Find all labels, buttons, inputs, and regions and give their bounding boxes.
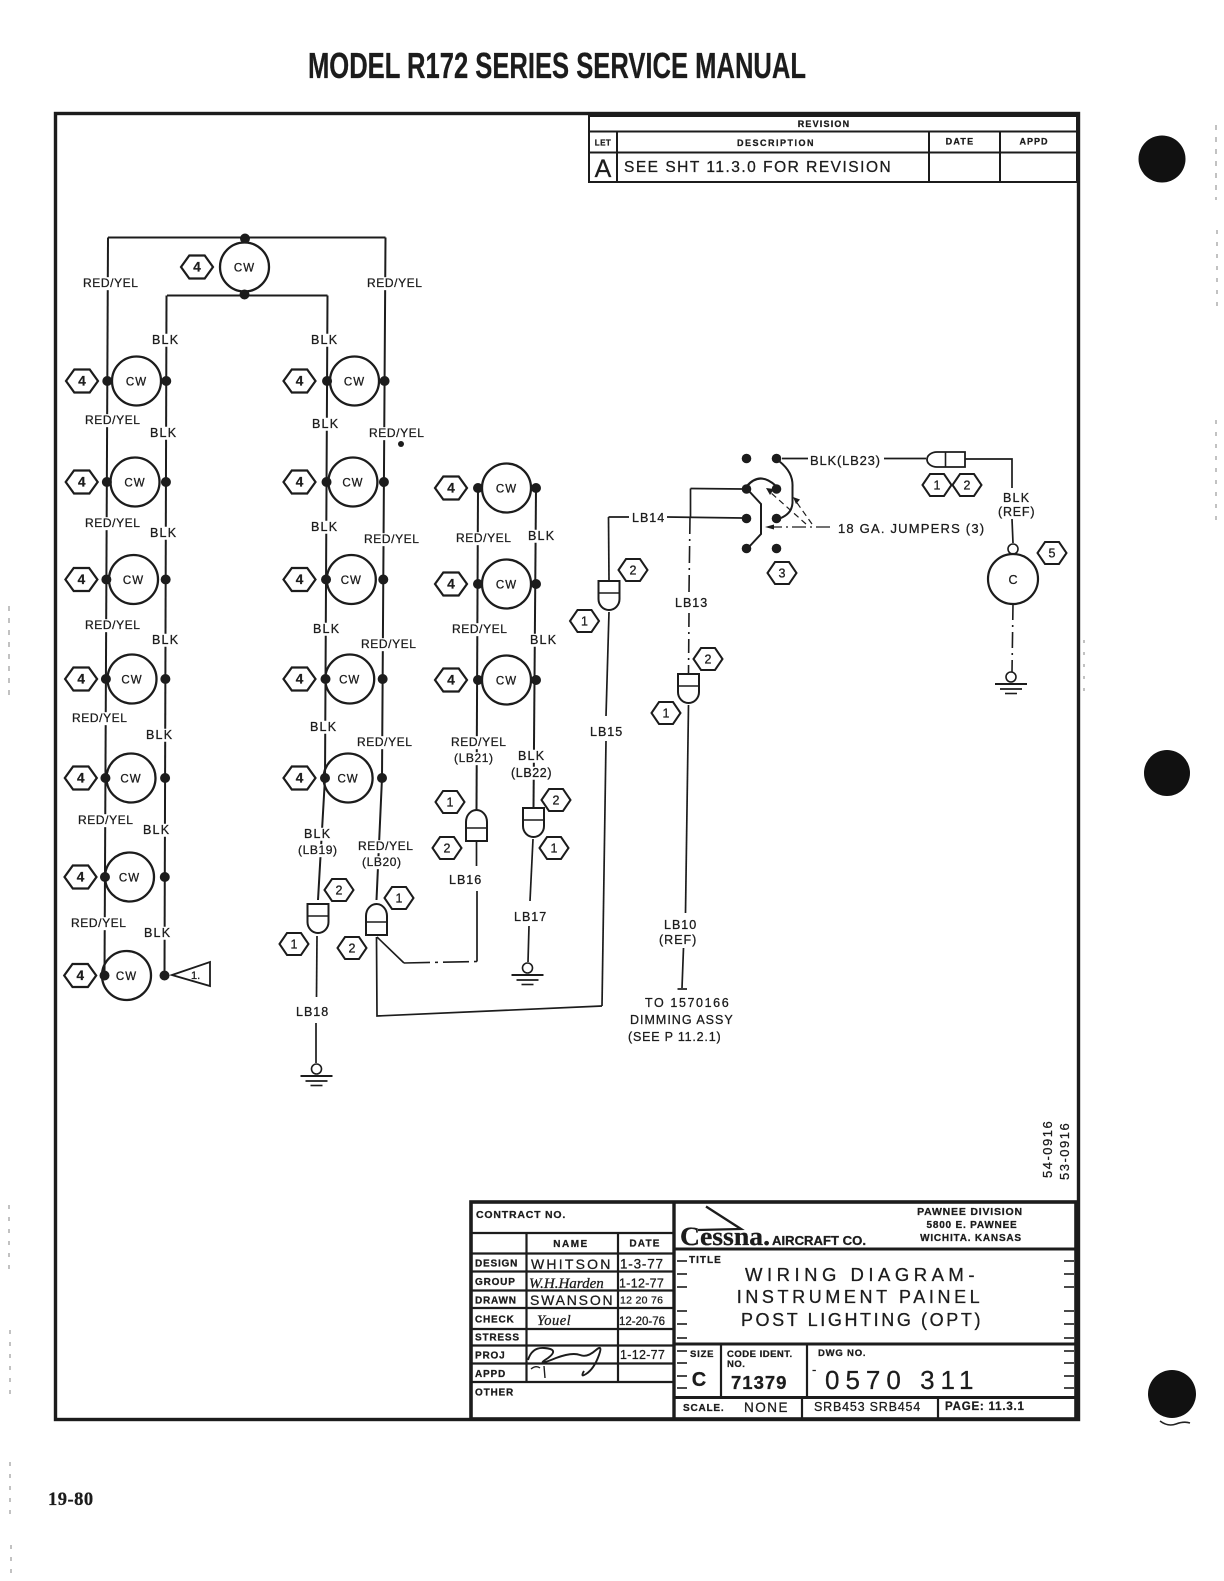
svg-text:1: 1 — [447, 796, 454, 810]
svg-text:CW: CW — [341, 575, 362, 587]
junction dot A2 left pin — [102, 477, 112, 487]
junction dot B4 left pin — [321, 674, 331, 684]
hex pin 3 for switch — [768, 562, 797, 584]
svg-text:CW: CW — [116, 971, 137, 983]
wire top bus RED/YEL — [108, 237, 386, 239]
label NO label — [727, 1359, 745, 1370]
svg-text:(LB20): (LB20) — [362, 855, 402, 869]
svg-text:BLK: BLK — [304, 827, 331, 841]
svg-text:RED/YEL: RED/YEL — [72, 711, 128, 725]
label PAGE 11.3.1 — [945, 1401, 1025, 1413]
label wire label LB14 — [632, 511, 665, 525]
junction dot switch left terminal 4 — [742, 544, 752, 554]
hex ref 4 for A6 lamp — [65, 866, 97, 889]
svg-text:CW: CW — [344, 377, 365, 389]
label wire label RED/YEL col3-0 — [454, 531, 513, 545]
svg-text:18 GA. JUMPERS (3): 18 GA. JUMPERS (3) — [838, 521, 985, 536]
svg-text:Youel: Youel — [537, 1313, 571, 1329]
svg-text:(REF): (REF) — [998, 505, 1035, 519]
svg-text:AIRCRAFT CO.: AIRCRAFT CO. — [772, 1234, 866, 1248]
label wire label (LB21) — [452, 751, 503, 765]
wire LB23 stub from switch — [782, 458, 808, 460]
svg-text:4: 4 — [76, 968, 84, 983]
wire LB14 left stub — [609, 516, 630, 518]
svg-text:CW: CW — [120, 774, 141, 786]
svg-text:RED/YEL: RED/YEL — [71, 916, 127, 930]
label row label GROUP — [475, 1277, 516, 1288]
svg-text:54-0916: 54-0916 — [1040, 1120, 1055, 1178]
label wire label LB10 — [664, 918, 697, 932]
ground lamp C — [995, 672, 1027, 694]
wire LB18 upper — [316, 936, 319, 997]
hex pin 5 for lamp C — [1038, 542, 1067, 564]
pen squiggle under bottom punch hole — [1160, 1421, 1190, 1425]
wire column 2 BLK riser — [318, 296, 328, 901]
label LET header — [595, 139, 612, 148]
hex ref 4 for B3 lamp — [284, 568, 316, 591]
svg-text:2: 2 — [964, 479, 971, 493]
svg-text:CW: CW — [234, 263, 255, 275]
svg-text:APPD: APPD — [475, 1369, 506, 1380]
label wire label BLK col3-0 — [526, 529, 556, 543]
label wire label LB18 — [296, 1005, 329, 1019]
hex pin 2 for LB22 — [542, 789, 571, 811]
svg-text:12-20-76: 12-20-76 — [619, 1316, 665, 1328]
svg-text:BLK: BLK — [143, 823, 170, 837]
label wire label BLK col3-1 — [528, 633, 558, 647]
label wire label RED/YEL col1-6 — [69, 916, 128, 930]
svg-text:RED/YEL: RED/YEL — [369, 426, 425, 440]
svg-text:WICHITA. KANSAS: WICHITA. KANSAS — [920, 1233, 1022, 1244]
wire lamp C to ground dash-dot — [1012, 604, 1013, 672]
junction dot switch right terminal 3 — [772, 514, 782, 524]
label 5800 E PAWNEE — [926, 1220, 1017, 1231]
svg-text:POST LIGHTING (OPT): POST LIGHTING (OPT) — [741, 1310, 983, 1330]
label APPD header — [1019, 137, 1048, 147]
svg-text:BLK: BLK — [528, 529, 555, 543]
label row label STRESS — [475, 1333, 520, 1344]
label DESCRIPTION header — [737, 138, 815, 148]
svg-text:5800 E. PAWNEE: 5800 E. PAWNEE — [926, 1220, 1017, 1231]
wire LB13 dash-dot lower — [688, 613, 691, 673]
junction dot B2 right pin — [379, 477, 389, 487]
svg-text:BLK: BLK — [311, 520, 338, 534]
post light lamp A6 — [105, 853, 154, 902]
junction dot A2 right pin — [161, 477, 171, 487]
label wire label BLK col1-3 — [150, 633, 180, 647]
junction dot B5 left pin — [320, 773, 330, 783]
label wire label BLK col2-3 — [311, 622, 341, 636]
svg-text:4: 4 — [447, 673, 455, 688]
post light lamp row0 — [220, 243, 269, 292]
punch hole top — [1139, 136, 1186, 183]
svg-text:4: 4 — [78, 572, 86, 587]
hex pin 2 for LB13 — [694, 648, 723, 670]
label wire label RED/YEL col1-5 — [76, 813, 135, 827]
wire LB15 link from LB20 — [377, 937, 603, 1016]
svg-text:RED/YEL: RED/YEL — [85, 516, 141, 530]
revision table — [589, 116, 1077, 182]
svg-text:LB14: LB14 — [632, 511, 665, 525]
label wire label (LB20) — [360, 855, 411, 869]
svg-text:CW: CW — [121, 675, 142, 687]
hex ref 4 for A2 lamp — [66, 471, 98, 494]
svg-text:NAME: NAME — [553, 1239, 588, 1250]
svg-text:RED/YEL: RED/YEL — [364, 532, 420, 546]
svg-text:LB16: LB16 — [449, 873, 482, 887]
ground LB17 — [512, 963, 544, 985]
jumper row1R to row3R — [778, 461, 793, 519]
junction dot B4 right pin — [378, 674, 388, 684]
wire leader 18GA jumpers horiz — [772, 526, 830, 528]
svg-text:NONE: NONE — [744, 1400, 789, 1415]
svg-text:4: 4 — [296, 771, 304, 786]
post light lamp A5 — [107, 754, 156, 803]
label wire label RED/YEL col1-2 — [83, 516, 142, 530]
hex pin 1 for LB21 — [436, 791, 465, 813]
junction dot A3 left pin — [101, 575, 111, 585]
label title line 1 — [745, 1264, 979, 1285]
svg-text:SWANSON: SWANSON — [530, 1292, 614, 1308]
svg-text:CW: CW — [124, 478, 145, 490]
svg-text:DRAWN: DRAWN — [475, 1296, 517, 1307]
hex ref 4 for B4 lamp — [284, 668, 316, 691]
svg-text:5: 5 — [1049, 547, 1056, 561]
hex pin 1 for LB14 — [570, 610, 599, 632]
label label 18 GA JUMPERS — [838, 521, 985, 536]
post light lamp B1 — [330, 357, 379, 406]
svg-text:NO.: NO. — [727, 1359, 745, 1370]
connector contact LB23 (horizontal) — [927, 452, 965, 467]
junction dot B5 right pin — [377, 773, 387, 783]
svg-text:4: 4 — [78, 475, 86, 490]
hex pin 2 for LB21 — [433, 837, 462, 859]
svg-text:DWG NO.: DWG NO. — [818, 1348, 866, 1359]
svg-text:WIRING DIAGRAM-: WIRING DIAGRAM- — [745, 1264, 979, 1285]
wire LB14 to switch — [667, 517, 742, 518]
svg-text:PAWNEE DIVISION: PAWNEE DIVISION — [917, 1206, 1023, 1218]
connector contact LB14 (socket, dome down) — [599, 581, 620, 610]
svg-text:C: C — [692, 1369, 706, 1391]
label wire label LB17 — [514, 910, 547, 924]
wire LB17 upper — [530, 839, 533, 901]
svg-text:RED/YEL: RED/YEL — [83, 276, 139, 290]
wire branch to switch row2 — [691, 488, 743, 491]
svg-text:LET: LET — [595, 139, 612, 148]
label row label APPD — [475, 1369, 506, 1380]
label note SEE P 11.2.1 — [628, 1030, 721, 1044]
svg-text:1: 1 — [934, 479, 941, 493]
connector contact LB13 (socket, dome down) — [678, 674, 699, 703]
label SCALE label — [683, 1403, 724, 1414]
label name SWANSON — [530, 1292, 614, 1308]
svg-text:2: 2 — [336, 884, 343, 898]
svg-text:RED/YEL: RED/YEL — [358, 839, 414, 853]
label note DIMMING ASSY — [630, 1013, 734, 1027]
wire column 1 BLK riser — [165, 296, 167, 976]
label scale NONE — [744, 1400, 789, 1415]
label wire label RED/YEL col1-1 — [83, 413, 142, 427]
junction dot C2 left pin — [473, 579, 483, 589]
svg-text:(LB19): (LB19) — [298, 843, 338, 857]
wire LB20 to jumper diagonal — [377, 937, 404, 963]
junction dot top lamp lower pin — [240, 290, 250, 300]
svg-text:OTHER: OTHER — [475, 1388, 514, 1399]
hex pin 2 for LB23 — [953, 474, 982, 496]
label wire label BLK col1-5 — [141, 823, 171, 837]
wire column 1 RED/YEL riser — [105, 238, 109, 976]
svg-text:2: 2 — [349, 942, 356, 956]
punch hole bottom — [1148, 1370, 1196, 1418]
wire LB14 drop to contact — [608, 517, 611, 580]
label CODE IDENT label — [727, 1349, 793, 1360]
svg-text:CONTRACT NO.: CONTRACT NO. — [476, 1209, 566, 1221]
label DWG NO label — [818, 1348, 866, 1359]
junction dot switch left terminal 1 — [742, 454, 752, 464]
svg-text:4: 4 — [296, 572, 304, 587]
junction dot A7 right pin — [160, 971, 170, 981]
label date 1-12-77 — [619, 1277, 664, 1291]
svg-text:RED/YEL: RED/YEL — [451, 735, 507, 749]
svg-text:PAGE: 11.3.1: PAGE: 11.3.1 — [945, 1401, 1025, 1413]
svg-text:BLK: BLK — [146, 728, 173, 742]
wire LB16 upper — [476, 841, 478, 866]
svg-text:TITLE: TITLE — [689, 1255, 722, 1266]
post light lamp A4 — [108, 655, 157, 704]
leader arrowhead 3 — [766, 488, 774, 495]
hex pin 1 for LB19 — [280, 933, 309, 955]
wire LB16 lower — [476, 891, 478, 962]
label wire label (LB19) — [296, 843, 347, 857]
svg-text:RED/YEL: RED/YEL — [367, 276, 423, 290]
svg-text:RED/YEL: RED/YEL — [456, 531, 512, 545]
svg-text:4: 4 — [447, 481, 455, 496]
svg-text:1-3-77: 1-3-77 — [620, 1257, 664, 1272]
svg-text:RED/YEL: RED/YEL — [78, 813, 134, 827]
svg-text:RED/YEL: RED/YEL — [357, 735, 413, 749]
note triangle 1 at lamp A7 — [172, 962, 210, 986]
leader arrowhead 1 — [765, 525, 774, 530]
junction dot switch right terminal 1 — [772, 454, 782, 464]
junction dot C1 left pin — [473, 483, 483, 493]
junction dot B3 right pin — [378, 575, 388, 585]
hex pin 1 for LB22 — [540, 837, 569, 859]
svg-text:RED/YEL: RED/YEL — [85, 618, 141, 632]
wire LB17 lower — [528, 926, 529, 962]
wire LB10 end tick — [678, 988, 688, 990]
hex ref 4 for C1 lamp — [435, 477, 467, 500]
hex ref 4 for A7 lamp — [64, 964, 96, 987]
label wire label BLK LB22 — [516, 749, 546, 763]
svg-text:Cessna.: Cessna. — [680, 1222, 770, 1251]
label NAME header — [553, 1239, 588, 1250]
svg-text:A: A — [595, 155, 612, 183]
wire second bus BLK — [167, 295, 328, 297]
svg-text:1: 1 — [396, 892, 403, 906]
label rotated number 54-0916 — [1040, 1120, 1055, 1178]
hex pin 2 for LB20 — [338, 937, 367, 959]
svg-text:19-80: 19-80 — [48, 1490, 94, 1510]
post light lamp C1 — [482, 464, 531, 513]
label revision description — [624, 159, 892, 176]
svg-text:APPD: APPD — [1019, 137, 1048, 147]
svg-text:CW: CW — [123, 575, 144, 587]
label date 1-3-77 — [620, 1257, 664, 1272]
wire leader 18GA jumpers left — [770, 492, 806, 524]
label note TO 1570166 — [645, 996, 730, 1010]
label revision header — [798, 119, 851, 129]
hex pin 1 for LB23 — [923, 474, 952, 496]
svg-text:4: 4 — [296, 672, 304, 687]
cessna logo — [680, 1207, 866, 1252]
junction dot A3 right pin — [161, 575, 171, 585]
svg-text:BLK: BLK — [1003, 491, 1030, 505]
label wire label BLK col2-4 — [308, 720, 338, 734]
svg-text:4: 4 — [77, 672, 85, 687]
label wire label BLK col1-4 — [144, 728, 174, 742]
post light lamp B5 — [324, 754, 373, 803]
post light lamp B4 — [325, 655, 374, 704]
wire LB23 to lamp C — [965, 459, 1012, 488]
svg-text:2: 2 — [705, 653, 712, 667]
svg-text:1: 1 — [551, 842, 558, 856]
svg-text:C: C — [1008, 573, 1017, 587]
label wire label BLK col2-1 — [310, 417, 340, 431]
svg-text:CW: CW — [496, 580, 517, 592]
scan artifact dashes left edge — [9, 606, 11, 1576]
svg-text:LB17: LB17 — [514, 910, 547, 924]
junction dot A5 right pin — [160, 773, 170, 783]
punch hole middle — [1144, 750, 1190, 796]
switch wiper row2L-row4L — [748, 490, 761, 548]
wire column 3 BLK riser (LB22) — [534, 489, 537, 808]
post light lamp C2 — [482, 560, 531, 609]
title block outer frame — [471, 1202, 1076, 1419]
svg-text:W.H.Harden: W.H.Harden — [529, 1276, 604, 1292]
svg-text:BLK: BLK — [310, 720, 337, 734]
svg-text:BLK: BLK — [313, 622, 340, 636]
svg-text:(LB21): (LB21) — [454, 751, 494, 765]
svg-text:CW: CW — [338, 774, 359, 786]
junction dot switch right terminal 4 — [772, 544, 782, 554]
hex ref 4 for A1 lamp — [66, 370, 98, 393]
form tick marks — [677, 1261, 1074, 1388]
svg-text:BLK: BLK — [518, 749, 545, 763]
svg-text:LB10: LB10 — [664, 918, 697, 932]
hex ref 4 for C3 lamp — [435, 669, 467, 692]
label name WHITSON — [531, 1256, 613, 1272]
label wire label BLK col1-0 — [150, 333, 180, 347]
svg-text:BLK(LB23): BLK(LB23) — [810, 453, 881, 468]
label wire label (LB22) — [509, 766, 562, 780]
svg-text:DATE: DATE — [946, 137, 975, 147]
connector contact LB20 (pin, dome up) — [366, 904, 387, 935]
label wire label BLK col2-2 — [309, 520, 339, 534]
label wire label BLK LB19 — [302, 827, 332, 841]
wire column 3 RED/YEL riser (LB21) — [477, 489, 479, 810]
svg-text:BLK: BLK — [152, 333, 179, 347]
label wire label (REF) — [998, 505, 1035, 519]
title block section lines — [674, 1249, 1078, 1419]
label row label DRAWN — [475, 1296, 517, 1307]
junction dot A7 left pin — [100, 971, 110, 981]
connector contact LB19 (socket, dome down) — [308, 904, 329, 933]
svg-text:2: 2 — [553, 794, 560, 808]
junction dot B3 left pin — [321, 575, 331, 585]
junction dot C1 right pin — [531, 483, 541, 493]
svg-text:(REF): (REF) — [659, 933, 697, 947]
svg-text:1-12-77: 1-12-77 — [620, 1348, 665, 1362]
title block name/date grid — [471, 1233, 674, 1382]
svg-text:INSTRUMENT PAINEL: INSTRUMENT PAINEL — [737, 1287, 984, 1307]
label wire label BLK REF — [1003, 491, 1030, 505]
svg-text:GROUP: GROUP — [475, 1277, 516, 1288]
junction dot switch left terminal 2 — [742, 484, 752, 494]
label code 71379 — [731, 1372, 787, 1393]
label wire label RED/YEL col1-4 — [70, 711, 129, 725]
ground LB18 — [301, 1064, 333, 1086]
svg-text:4: 4 — [296, 374, 304, 389]
label size C — [692, 1369, 706, 1391]
junction dot C3 left pin — [473, 675, 483, 685]
label SIZE label — [690, 1349, 714, 1360]
wire dash-dot link LB16 — [404, 962, 477, 964]
svg-text:1.: 1. — [191, 970, 200, 982]
svg-text:BLK: BLK — [150, 526, 177, 540]
hex pin 1 for LB13 — [652, 702, 681, 724]
post light lamp A1 — [112, 357, 161, 406]
junction dot switch right terminal 2 — [772, 484, 782, 494]
svg-text:CW: CW — [496, 676, 517, 688]
svg-text:SEE SHT 11.3.0 FOR REVISION: SEE SHT 11.3.0 FOR REVISION — [624, 159, 892, 176]
svg-text:BLK: BLK — [152, 633, 179, 647]
label wire label RED/YEL col2-4 — [355, 735, 414, 749]
junction dot switch left terminal 3 — [742, 514, 752, 524]
svg-text:DESIGN: DESIGN — [475, 1259, 518, 1270]
svg-text:CW: CW — [339, 675, 360, 687]
label wire label BLK col1-1 — [148, 426, 178, 440]
hex pin 2 for LB19 — [325, 879, 354, 901]
label wire label RED/YEL col1-3 — [83, 618, 142, 632]
scan artifact dashes right edge — [1084, 125, 1217, 700]
label date PROJ 1-12-77 — [620, 1348, 665, 1362]
svg-text:RED/YEL: RED/YEL — [85, 413, 141, 427]
ink speck — [398, 441, 404, 447]
svg-text:REVISION: REVISION — [798, 119, 851, 129]
wire branch up from LB14 — [690, 489, 692, 518]
label date 12-20-76 — [619, 1316, 665, 1328]
label wire label BLK(LB23) — [810, 453, 881, 468]
hex pin 1 for LB20 — [385, 887, 414, 909]
label wire label RED/YEL col1-0 — [81, 276, 140, 290]
svg-text:SCALE.: SCALE. — [683, 1403, 724, 1414]
wire LB10 upper — [686, 705, 689, 913]
svg-text:MODEL R172 SERIES SERVICE MANU: MODEL R172 SERIES SERVICE MANUAL — [308, 45, 806, 86]
svg-text:LB15: LB15 — [590, 725, 623, 739]
label WICHITA KANSAS — [920, 1233, 1022, 1244]
label CONTRACT NO. — [476, 1209, 566, 1221]
label wire label RED/YEL col2-2 — [362, 532, 421, 546]
svg-text:4: 4 — [77, 870, 85, 885]
label title line 3 — [741, 1310, 983, 1330]
label wire label LB13 — [675, 596, 708, 610]
junction dot A1 right pin — [161, 376, 171, 386]
svg-text:71379: 71379 — [731, 1372, 787, 1393]
junction dot C2 right pin — [531, 579, 541, 589]
post light lamp A3 — [109, 555, 158, 604]
hex ref 4 for B5 lamp — [284, 767, 316, 790]
svg-text:LB13: LB13 — [675, 596, 708, 610]
